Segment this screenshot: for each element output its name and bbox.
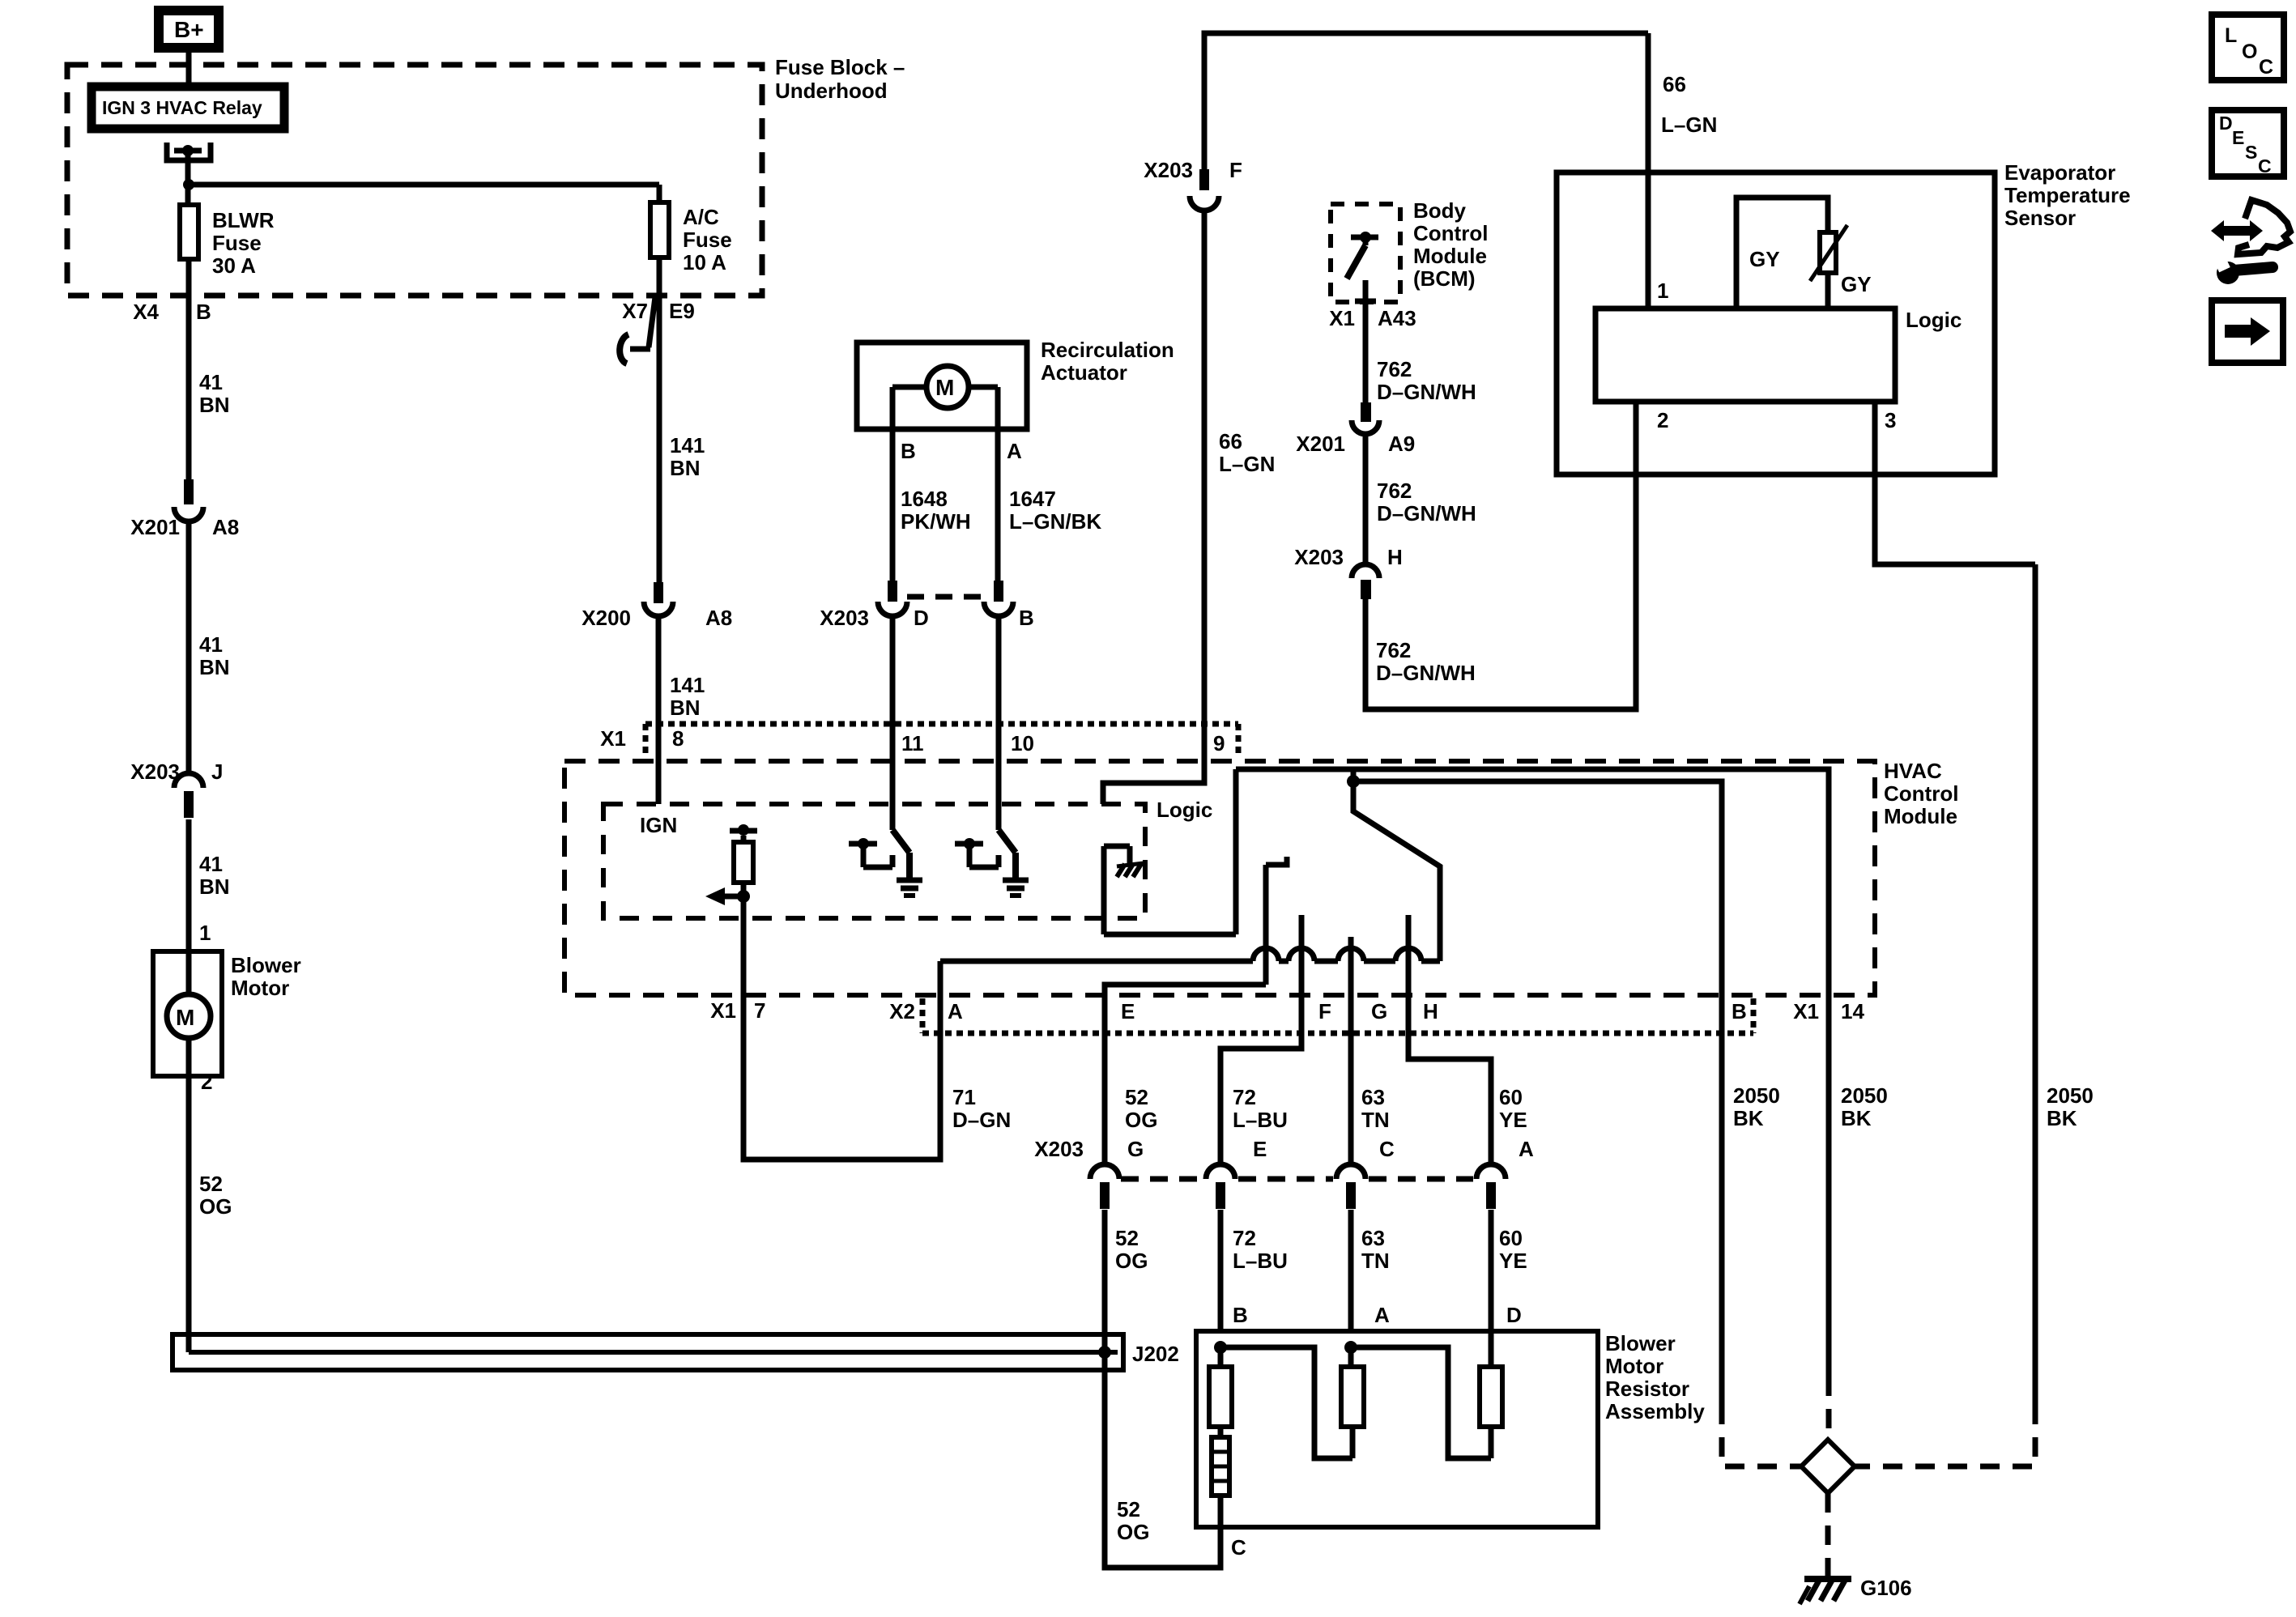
svg-text:1647: 1647 xyxy=(1009,487,1056,511)
svg-text:A: A xyxy=(1519,1137,1534,1161)
svg-text:O: O xyxy=(2242,40,2257,63)
svg-text:41: 41 xyxy=(199,370,223,394)
svg-text:60: 60 xyxy=(1499,1085,1523,1109)
svg-text:TN: TN xyxy=(1361,1249,1390,1273)
svg-text:E: E xyxy=(1121,999,1135,1023)
svg-text:PK/WH: PK/WH xyxy=(901,509,971,534)
svg-text:Logic: Logic xyxy=(1906,308,1962,332)
svg-text:71: 71 xyxy=(952,1085,976,1109)
svg-text:A: A xyxy=(1007,439,1022,463)
svg-text:OG: OG xyxy=(1115,1249,1148,1273)
svg-text:52: 52 xyxy=(1117,1497,1140,1521)
svg-text:E: E xyxy=(2232,127,2244,148)
svg-text:60: 60 xyxy=(1499,1226,1523,1250)
svg-text:G: G xyxy=(1127,1137,1144,1161)
svg-text:72: 72 xyxy=(1233,1226,1256,1250)
svg-text:52: 52 xyxy=(199,1172,223,1196)
svg-text:X2: X2 xyxy=(889,999,915,1023)
svg-text:B+: B+ xyxy=(174,17,204,42)
svg-text:X203: X203 xyxy=(820,606,869,630)
svg-text:A8: A8 xyxy=(705,606,732,630)
svg-text:Blower: Blower xyxy=(231,953,301,977)
svg-text:L–GN/BK: L–GN/BK xyxy=(1009,509,1101,534)
svg-text:(BCM): (BCM) xyxy=(1413,266,1476,291)
svg-text:OG: OG xyxy=(1117,1520,1149,1544)
svg-text:D–GN/WH: D–GN/WH xyxy=(1377,380,1476,404)
svg-text:1: 1 xyxy=(199,921,211,945)
svg-text:E9: E9 xyxy=(669,299,695,323)
svg-text:HVAC: HVAC xyxy=(1884,759,1942,783)
svg-text:Logic: Logic xyxy=(1157,798,1212,822)
svg-text:A: A xyxy=(948,999,963,1023)
svg-text:X1: X1 xyxy=(710,998,736,1023)
svg-text:141: 141 xyxy=(670,433,705,457)
svg-text:X201: X201 xyxy=(1296,432,1345,456)
svg-text:A43: A43 xyxy=(1378,306,1416,330)
svg-text:A9: A9 xyxy=(1388,432,1415,456)
svg-text:Fuse Block –: Fuse Block – xyxy=(775,55,905,79)
svg-text:63: 63 xyxy=(1361,1085,1385,1109)
svg-text:A: A xyxy=(1374,1303,1390,1327)
svg-text:Motor: Motor xyxy=(1605,1354,1663,1378)
svg-text:B: B xyxy=(901,439,916,463)
svg-text:10 A: 10 A xyxy=(683,250,726,274)
svg-text:Assembly: Assembly xyxy=(1605,1399,1705,1423)
svg-text:X201: X201 xyxy=(130,515,180,539)
svg-text:BK: BK xyxy=(1733,1106,1764,1130)
svg-text:X1: X1 xyxy=(600,726,626,751)
svg-text:OG: OG xyxy=(199,1194,232,1219)
svg-text:Fuse: Fuse xyxy=(683,228,732,252)
svg-text:Recirculation: Recirculation xyxy=(1041,338,1174,362)
svg-text:BN: BN xyxy=(199,393,230,417)
svg-text:BK: BK xyxy=(1841,1106,1872,1130)
svg-text:L–BU: L–BU xyxy=(1233,1249,1288,1273)
svg-text:11: 11 xyxy=(901,731,924,755)
svg-text:J202: J202 xyxy=(1132,1342,1179,1366)
svg-text:Control: Control xyxy=(1884,781,1958,806)
svg-text:D: D xyxy=(2219,113,2233,134)
svg-text:D–GN/WH: D–GN/WH xyxy=(1377,501,1476,526)
svg-text:8: 8 xyxy=(672,726,684,751)
svg-text:Control: Control xyxy=(1413,221,1488,245)
svg-text:BN: BN xyxy=(670,456,701,480)
svg-text:1: 1 xyxy=(1657,279,1668,303)
svg-text:GY: GY xyxy=(1841,272,1872,296)
svg-text:C: C xyxy=(2258,155,2272,177)
svg-text:D: D xyxy=(1506,1303,1522,1327)
svg-text:Blower: Blower xyxy=(1605,1331,1676,1355)
svg-text:X1: X1 xyxy=(1793,999,1819,1023)
svg-text:B: B xyxy=(1019,606,1034,630)
svg-text:2: 2 xyxy=(1657,408,1668,432)
svg-text:141: 141 xyxy=(670,673,705,697)
svg-text:X203: X203 xyxy=(1144,158,1193,182)
svg-text:C: C xyxy=(2259,56,2273,79)
svg-text:762: 762 xyxy=(1376,638,1411,662)
svg-text:X200: X200 xyxy=(581,606,631,630)
svg-text:B: B xyxy=(1233,1303,1248,1327)
svg-text:52: 52 xyxy=(1125,1085,1148,1109)
svg-text:TN: TN xyxy=(1361,1108,1390,1132)
svg-text:S: S xyxy=(2245,142,2257,163)
svg-text:A8: A8 xyxy=(212,515,239,539)
svg-text:52: 52 xyxy=(1115,1226,1139,1250)
svg-text:3: 3 xyxy=(1885,408,1896,432)
svg-text:41: 41 xyxy=(199,632,223,657)
svg-text:1648: 1648 xyxy=(901,487,948,511)
svg-text:C: C xyxy=(1231,1535,1246,1560)
svg-text:YE: YE xyxy=(1499,1249,1527,1273)
svg-text:7: 7 xyxy=(754,998,765,1023)
svg-text:Evaporator: Evaporator xyxy=(2004,160,2115,185)
svg-text:X7: X7 xyxy=(622,299,648,323)
svg-text:762: 762 xyxy=(1377,357,1412,381)
svg-text:D–GN/WH: D–GN/WH xyxy=(1376,661,1476,685)
svg-text:L–GN: L–GN xyxy=(1661,113,1717,137)
svg-text:IGN 3 HVAC Relay: IGN 3 HVAC Relay xyxy=(102,97,262,118)
svg-text:BN: BN xyxy=(670,696,701,720)
svg-text:B: B xyxy=(196,300,211,324)
svg-text:F: F xyxy=(1318,999,1331,1023)
svg-text:Temperature: Temperature xyxy=(2004,183,2131,207)
svg-text:Module: Module xyxy=(1884,804,1957,828)
svg-text:D–GN: D–GN xyxy=(952,1108,1011,1132)
svg-text:Body: Body xyxy=(1413,198,1467,223)
svg-text:E: E xyxy=(1253,1137,1267,1161)
svg-text:66: 66 xyxy=(1663,72,1686,96)
svg-text:G: G xyxy=(1371,999,1387,1023)
svg-text:72: 72 xyxy=(1233,1085,1256,1109)
svg-text:F: F xyxy=(1229,158,1242,182)
svg-text:BN: BN xyxy=(199,874,230,899)
svg-text:2050: 2050 xyxy=(2047,1083,2094,1108)
svg-text:G106: G106 xyxy=(1860,1576,1912,1600)
svg-text:Sensor: Sensor xyxy=(2004,206,2076,230)
svg-text:10: 10 xyxy=(1011,731,1034,755)
svg-text:B: B xyxy=(1732,999,1747,1023)
svg-text:IGN: IGN xyxy=(640,813,677,837)
svg-text:X203: X203 xyxy=(1034,1137,1084,1161)
svg-text:L: L xyxy=(2225,24,2237,47)
svg-text:Fuse: Fuse xyxy=(212,231,262,255)
svg-text:BK: BK xyxy=(2047,1106,2077,1130)
svg-text:63: 63 xyxy=(1361,1226,1385,1250)
svg-text:L–GN: L–GN xyxy=(1219,452,1275,476)
svg-text:30 A: 30 A xyxy=(212,253,256,278)
svg-text:41: 41 xyxy=(199,852,223,876)
svg-text:OG: OG xyxy=(1125,1108,1157,1132)
svg-text:M: M xyxy=(176,1005,194,1030)
svg-text:X203: X203 xyxy=(130,760,180,784)
svg-text:Resistor: Resistor xyxy=(1605,1377,1689,1401)
svg-text:L–BU: L–BU xyxy=(1233,1108,1288,1132)
svg-text:66: 66 xyxy=(1219,429,1242,453)
svg-text:BLWR: BLWR xyxy=(212,208,275,232)
svg-text:X1: X1 xyxy=(1329,306,1355,330)
svg-text:H: H xyxy=(1387,545,1403,569)
svg-text:2050: 2050 xyxy=(1841,1083,1888,1108)
svg-text:H: H xyxy=(1423,999,1438,1023)
svg-text:C: C xyxy=(1379,1137,1395,1161)
svg-text:Actuator: Actuator xyxy=(1041,360,1127,385)
svg-text:9: 9 xyxy=(1213,731,1225,755)
svg-text:X203: X203 xyxy=(1294,545,1344,569)
svg-text:J: J xyxy=(211,760,223,784)
svg-text:BN: BN xyxy=(199,655,230,679)
svg-text:D: D xyxy=(914,606,929,630)
svg-text:A/C: A/C xyxy=(683,205,719,229)
svg-text:2050: 2050 xyxy=(1733,1083,1780,1108)
svg-text:X4: X4 xyxy=(133,300,159,324)
svg-text:Module: Module xyxy=(1413,244,1487,268)
svg-text:Motor: Motor xyxy=(231,976,289,1000)
svg-text:GY: GY xyxy=(1749,247,1780,271)
svg-text:Underhood: Underhood xyxy=(775,79,888,103)
svg-text:YE: YE xyxy=(1499,1108,1527,1132)
svg-text:2: 2 xyxy=(201,1070,212,1094)
svg-text:14: 14 xyxy=(1841,999,1864,1023)
svg-text:762: 762 xyxy=(1377,479,1412,503)
svg-text:M: M xyxy=(935,375,954,400)
